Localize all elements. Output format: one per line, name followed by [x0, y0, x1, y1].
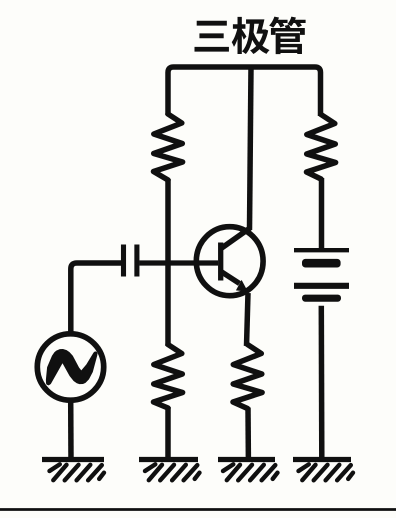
wire base-node vertical (R1 to R2)	[165, 179, 171, 346]
ground (under AC source)	[42, 460, 104, 481]
ground (under R3)	[218, 460, 278, 481]
ground (under battery)	[293, 460, 353, 481]
battery BT1 (two cells)	[294, 250, 349, 302]
wire battery to ground	[319, 306, 325, 461]
wire AC source to ground	[68, 400, 74, 461]
wire R4 to battery	[319, 178, 325, 250]
wire input: source up to capacitor, corner	[71, 263, 121, 332]
capacitor C1 (coupling)	[124, 245, 137, 277]
wire VCC top rail	[168, 67, 321, 116]
resistor R2 (lower bias resistor)	[154, 345, 183, 409]
AC source V1 (signal generator)	[37, 334, 103, 400]
title 三极管 (transistor)	[194, 17, 305, 54]
wire collector branch (rail to transistor)	[250, 67, 252, 230]
wire emitter (transistor to R3)	[247, 293, 249, 346]
resistor R4 (load, right branch)	[307, 115, 336, 180]
resistor R1 (upper bias resistor)	[154, 114, 183, 180]
ground (under R2)	[139, 460, 200, 481]
bottom border line	[0, 508, 396, 511]
resistor R3 (emitter resistor)	[233, 345, 262, 409]
wire R2 to ground	[165, 407, 171, 461]
wire R3 to ground	[245, 408, 251, 462]
transistor Q1 (NPN)	[196, 227, 263, 296]
wire base (capacitor to transistor base)	[140, 260, 219, 265]
